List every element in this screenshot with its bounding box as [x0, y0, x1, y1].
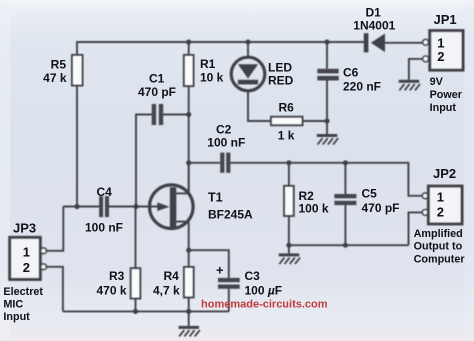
svg-text:C2: C2	[216, 123, 232, 137]
wire gate row	[63, 206, 99, 208]
wire JP3 pin1 to gate row	[46, 207, 63, 251]
svg-text:Output to: Output to	[414, 241, 463, 253]
svg-text:+: +	[216, 263, 224, 278]
wire source to C3	[189, 250, 229, 278]
svg-text:100 nF: 100 nF	[85, 221, 123, 235]
capacitor C4	[99, 196, 109, 217]
junction C1/drain	[186, 112, 191, 117]
junction R5/gate	[74, 204, 79, 209]
wire ground stub bottom	[188, 311, 190, 326]
svg-text:47 k: 47 k	[43, 71, 67, 85]
wire R1 bottom to drain	[188, 86, 190, 193]
capacitor C5	[334, 194, 356, 205]
wire LED bottom to R6	[248, 91, 271, 121]
wire R3 bottom	[135, 299, 137, 312]
svg-text:2: 2	[23, 260, 30, 275]
svg-text:Amplified: Amplified	[414, 228, 463, 240]
svg-text:R3: R3	[109, 269, 125, 283]
wire C6 top	[326, 42, 328, 69]
svg-text:BF245A: BF245A	[208, 208, 253, 222]
wire JP3 pin2 to bottom rail	[46, 267, 63, 312]
junction LED top	[245, 39, 250, 44]
svg-text:JP2: JP2	[433, 166, 456, 181]
svg-text:470 pF: 470 pF	[138, 85, 176, 99]
wire C1 right to drain line	[163, 114, 189, 116]
resistor R4	[184, 267, 194, 297]
resistor R5	[72, 55, 83, 86]
svg-text:C3: C3	[245, 269, 261, 283]
ground (bottom rail)	[179, 326, 200, 337]
svg-text:C5: C5	[362, 187, 378, 201]
svg-text:9V: 9V	[430, 76, 444, 88]
wire C3 bottom to rail	[228, 289, 230, 312]
svg-text:MIC: MIC	[3, 299, 23, 311]
svg-text:220 nF: 220 nF	[343, 80, 381, 94]
svg-text:2: 2	[437, 49, 444, 64]
svg-text:R5: R5	[51, 58, 67, 72]
junction C5 top	[343, 160, 348, 165]
wire R5 top	[76, 41, 78, 55]
junction T1 source node	[186, 248, 191, 253]
svg-text:100 µF: 100 µF	[245, 284, 283, 298]
connector JP1	[423, 31, 463, 71]
wire C5 top	[344, 163, 346, 194]
capacitor C2	[220, 153, 230, 173]
junction C5 bottom	[343, 243, 348, 248]
svg-text:Power: Power	[430, 89, 463, 101]
wire LED top	[247, 42, 249, 57]
svg-text:100 nF: 100 nF	[207, 136, 245, 150]
svg-text:10 k: 10 k	[200, 71, 224, 85]
wire top rail right to JP1	[385, 42, 423, 44]
svg-text:470 k: 470 k	[97, 284, 127, 298]
svg-text:1: 1	[23, 245, 30, 260]
capacitor C6	[317, 69, 338, 81]
svg-text:JP3: JP3	[13, 220, 36, 235]
capacitor C3	[218, 278, 240, 289]
svg-text:1: 1	[437, 189, 444, 204]
svg-text:4,7 k: 4,7 k	[153, 284, 180, 298]
wire C4 right to gate	[109, 206, 159, 208]
junction C6 top	[324, 39, 329, 44]
wire ground stub R2	[288, 245, 290, 253]
wire R6 right to C6 node	[303, 120, 328, 122]
svg-text:D1: D1	[366, 6, 382, 20]
wire R5 bottom to gate node	[76, 86, 78, 207]
svg-text:C4: C4	[97, 185, 113, 199]
connector JP3	[10, 237, 47, 279]
junction C2 tap on drain	[186, 160, 191, 165]
svg-text:C1: C1	[149, 72, 165, 86]
wire top rail left (V+ net)	[77, 41, 364, 43]
wire C2 left from drain	[189, 162, 221, 164]
svg-text:RED: RED	[268, 74, 294, 88]
wire R2 bottom	[288, 216, 290, 245]
wire R4 bottom	[188, 297, 190, 311]
wire bottom rail	[63, 310, 229, 312]
wire JP1 pin2 to ground	[409, 59, 423, 80]
ground (JP1 pin2)	[399, 80, 420, 91]
wire C2 right to output node and JP2 pin1	[230, 163, 422, 196]
wire JP2 pin2 to ground row	[409, 212, 423, 245]
wire C6 bottom	[326, 81, 328, 135]
wire R1 top	[188, 42, 190, 55]
ground (C6/R6)	[317, 134, 338, 145]
wire C5 bottom	[344, 205, 346, 245]
svg-text:Computer: Computer	[414, 253, 466, 265]
resistor R6	[271, 117, 303, 125]
junction R3 bottom	[133, 309, 138, 314]
resistor R2	[284, 186, 294, 216]
svg-text:LED: LED	[268, 61, 292, 75]
svg-text:R6: R6	[279, 101, 295, 115]
junction C1-R3/gate	[133, 204, 138, 209]
svg-text:homemade-circuits.com: homemade-circuits.com	[201, 298, 328, 310]
wire R4 top	[188, 250, 190, 267]
svg-text:Input: Input	[430, 102, 457, 114]
svg-text:1 k: 1 k	[278, 129, 295, 143]
diode D1 1N4001	[364, 33, 385, 52]
junction R2 top	[286, 160, 291, 165]
svg-text:470 pF: 470 pF	[362, 201, 400, 215]
junction C6/R6	[324, 118, 329, 123]
svg-text:R4: R4	[164, 269, 180, 283]
svg-text:T1: T1	[208, 191, 223, 205]
wire R2 top	[288, 163, 290, 186]
svg-text:Input: Input	[3, 311, 30, 323]
LED D2 RED	[231, 57, 265, 91]
capacitor C1	[152, 104, 164, 125]
svg-text:Electret: Electret	[3, 286, 43, 298]
connector JP2	[422, 186, 462, 224]
svg-text:JP1: JP1	[434, 12, 457, 27]
junction R2 bottom	[286, 243, 291, 248]
svg-text:1N4001: 1N4001	[353, 19, 395, 33]
svg-text:C6: C6	[343, 66, 359, 80]
junction R4 bottom / ground	[186, 309, 191, 314]
wire C1 left vertical from gate node	[136, 115, 152, 207]
wire R3 vertical from gate node	[135, 207, 137, 269]
svg-text:100 k: 100 k	[299, 202, 329, 216]
junction R1 top	[186, 39, 191, 44]
resistor R3	[131, 268, 141, 298]
wire ground row right	[289, 244, 409, 246]
resistor R1	[184, 55, 194, 86]
transistor T1 BF245A	[150, 163, 194, 250]
ground (output filter)	[279, 253, 300, 264]
svg-text:2: 2	[437, 205, 444, 220]
svg-text:R1: R1	[200, 57, 216, 71]
